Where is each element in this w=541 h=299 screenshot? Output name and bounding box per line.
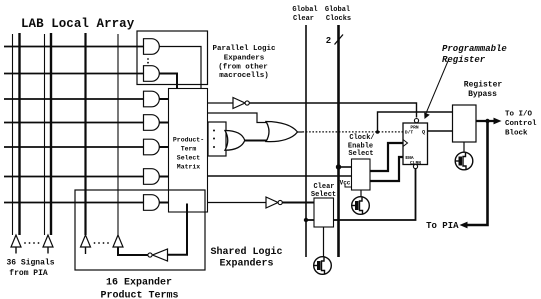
AND gate G6 (144, 169, 160, 185)
bubble N1 (245, 101, 249, 105)
svg-text:Matrix: Matrix (177, 164, 201, 171)
wire PIA input column pair 2 thick (50, 33, 52, 235)
wire product-term row 6 (4, 176, 144, 178)
AND gate G3 (144, 91, 160, 107)
wire product-term row 1 (4, 46, 144, 48)
wire expander column B (117, 34, 119, 235)
wire matrix to preset inverter (208, 102, 234, 104)
svg-text:Clear: Clear (293, 15, 314, 23)
wire global clear to clear select (306, 219, 314, 221)
register U1 (403, 123, 428, 165)
svg-text:Select: Select (348, 150, 373, 158)
wire G1 output (159, 47, 201, 89)
wire stem under A3 (85, 247, 87, 254)
wire product-term row 7 (4, 202, 144, 204)
wire stem under A1 (15, 247, 17, 254)
svg-text:Product Terms: Product Terms (100, 289, 178, 299)
svg-text:(from other: (from other (218, 64, 268, 72)
node clocks junction (336, 164, 341, 169)
wire dotted data line to register (303, 131, 403, 133)
bubble N2 (278, 200, 282, 204)
arrowhead to PIA (460, 222, 468, 229)
wire global clocks vertical (337, 25, 340, 257)
buffer A4 expander input (113, 235, 123, 247)
AND gate G7 (144, 195, 160, 211)
svg-text:Select: Select (177, 155, 201, 162)
ellipsis dots between A3 A4 (94, 242, 109, 244)
box parallel logic expander (137, 31, 208, 85)
bubble CLRN (413, 164, 417, 168)
box product term bundle (208, 122, 226, 156)
svg-text:from PIA: from PIA (9, 269, 48, 278)
svg-text:macrocells): macrocells) (219, 72, 269, 80)
wire stem clock select to cell (360, 190, 362, 197)
wire expander column A (84, 33, 86, 235)
wire G7 to inverter drop (168, 204, 188, 255)
svg-text:Parallel Logic: Parallel Logic (212, 45, 276, 53)
wire matrix to clock enable select (208, 175, 352, 177)
svg-text:Global: Global (325, 6, 350, 14)
wire preset line to register (249, 103, 416, 118)
AND gate G1 (144, 39, 160, 55)
svg-text:D/T: D/T (405, 130, 414, 136)
box product-term select matrix (169, 89, 208, 213)
svg-text:Q: Q (422, 130, 425, 136)
wire G7 output (159, 202, 168, 204)
wire N3 output feedback (118, 247, 148, 255)
ellipsis dots product terms (213, 130, 215, 149)
wire global clear vertical (305, 25, 307, 257)
wire G5 output (159, 146, 168, 148)
buffer A2 PIA input (43, 235, 53, 247)
arrowhead to IO block (494, 118, 502, 125)
wire product-term row 5 (4, 146, 144, 148)
wire matrix to OR top input (208, 113, 267, 123)
AND gate G5 (144, 139, 160, 155)
bubble N3 (148, 253, 152, 257)
wire G4 output (159, 122, 168, 124)
svg-text:Expanders: Expanders (219, 258, 273, 270)
slash bus mark (335, 35, 344, 45)
svg-text:Bypass: Bypass (468, 90, 497, 99)
svg-text:Control: Control (505, 120, 537, 128)
ellipsis dots between A1 A2 (24, 242, 39, 244)
transistor Q1 clock select cell (352, 197, 370, 215)
svg-text:LAB Local Array: LAB Local Array (21, 17, 135, 31)
box clear select (314, 198, 334, 227)
wire G7 term through matrix to clear inverter (208, 202, 267, 204)
wire stem under A4 (117, 247, 119, 255)
wire G2 output (159, 74, 177, 89)
buffer A3 expander input (81, 235, 91, 247)
wire clear select to register CLRN (334, 169, 416, 220)
wire bypass output (476, 120, 495, 122)
clock wedge (403, 140, 408, 147)
wire bypass tap up (378, 112, 453, 132)
bubble PRN (414, 119, 418, 123)
AND gate G2 (144, 66, 160, 82)
wire PIA input column pair 2 thin (44, 34, 46, 235)
wire product-term row 3 (4, 98, 144, 100)
transistor Q2 clear select cell (314, 257, 332, 275)
svg-text:Shared Logic: Shared Logic (210, 246, 282, 258)
svg-text:36 Signals: 36 Signals (6, 259, 54, 268)
wire O2 output stub (298, 131, 303, 133)
buffer A1 PIA input (11, 235, 21, 247)
wire stem clear select to cell (323, 227, 325, 257)
svg-text:Clocks: Clocks (326, 15, 351, 23)
wire stem bypass to cell (463, 142, 465, 152)
svg-text:Clear: Clear (313, 183, 334, 191)
wire stem under A2 (47, 247, 49, 254)
wire Vcc stub (345, 185, 352, 188)
inverter N1 preset (233, 98, 245, 109)
svg-text:Global: Global (292, 6, 317, 14)
svg-text:Clock/: Clock/ (349, 134, 374, 142)
box register bypass (453, 105, 477, 142)
node bypass output junction (485, 119, 489, 123)
arrow annotation to register (426, 61, 449, 115)
node data tap junction (376, 130, 380, 134)
svg-text:To PIA: To PIA (426, 221, 459, 231)
svg-text:Programmable: Programmable (442, 44, 507, 54)
OR gate O2 main (266, 122, 298, 142)
box shared logic expander region (75, 190, 205, 270)
svg-text:16 Expander: 16 Expander (106, 277, 172, 289)
wire feedback to PIA (466, 121, 488, 225)
svg-text:Register: Register (442, 55, 486, 65)
wire clocks to select box (339, 166, 352, 168)
OR gate O1 small (225, 131, 245, 151)
wire clock output to register (370, 143, 403, 171)
wire product-term row 2 (4, 73, 144, 75)
wire enable output to register (370, 157, 403, 181)
svg-text:Expanders: Expanders (224, 55, 265, 63)
box clock enable select (352, 159, 371, 190)
svg-text:2: 2 (326, 36, 331, 46)
node global clear junction (304, 218, 308, 222)
inverter N3 shared expander (153, 249, 168, 261)
svg-text:Product-: Product- (173, 137, 204, 144)
wire O1 output (245, 140, 268, 142)
svg-text:Block: Block (505, 130, 528, 138)
AND gate G4 (144, 115, 160, 131)
wire N2 to clear select (282, 202, 314, 204)
wire G3 output (159, 98, 168, 100)
svg-text:Register: Register (464, 81, 503, 90)
transistor Q3 bypass cell (455, 152, 473, 170)
ellipsis dots under G1 (147, 58, 149, 64)
wire PIA input column pair 1 thin (12, 34, 14, 235)
wire G6 output (159, 176, 168, 178)
wire PIA input column pair 1 thick (18, 33, 20, 235)
svg-text:To I/O: To I/O (505, 111, 533, 119)
wire product-term row 4 (4, 122, 144, 124)
wire register Q output (428, 130, 453, 132)
inverter N2 clear (266, 197, 278, 208)
svg-text:Term: Term (181, 146, 197, 153)
